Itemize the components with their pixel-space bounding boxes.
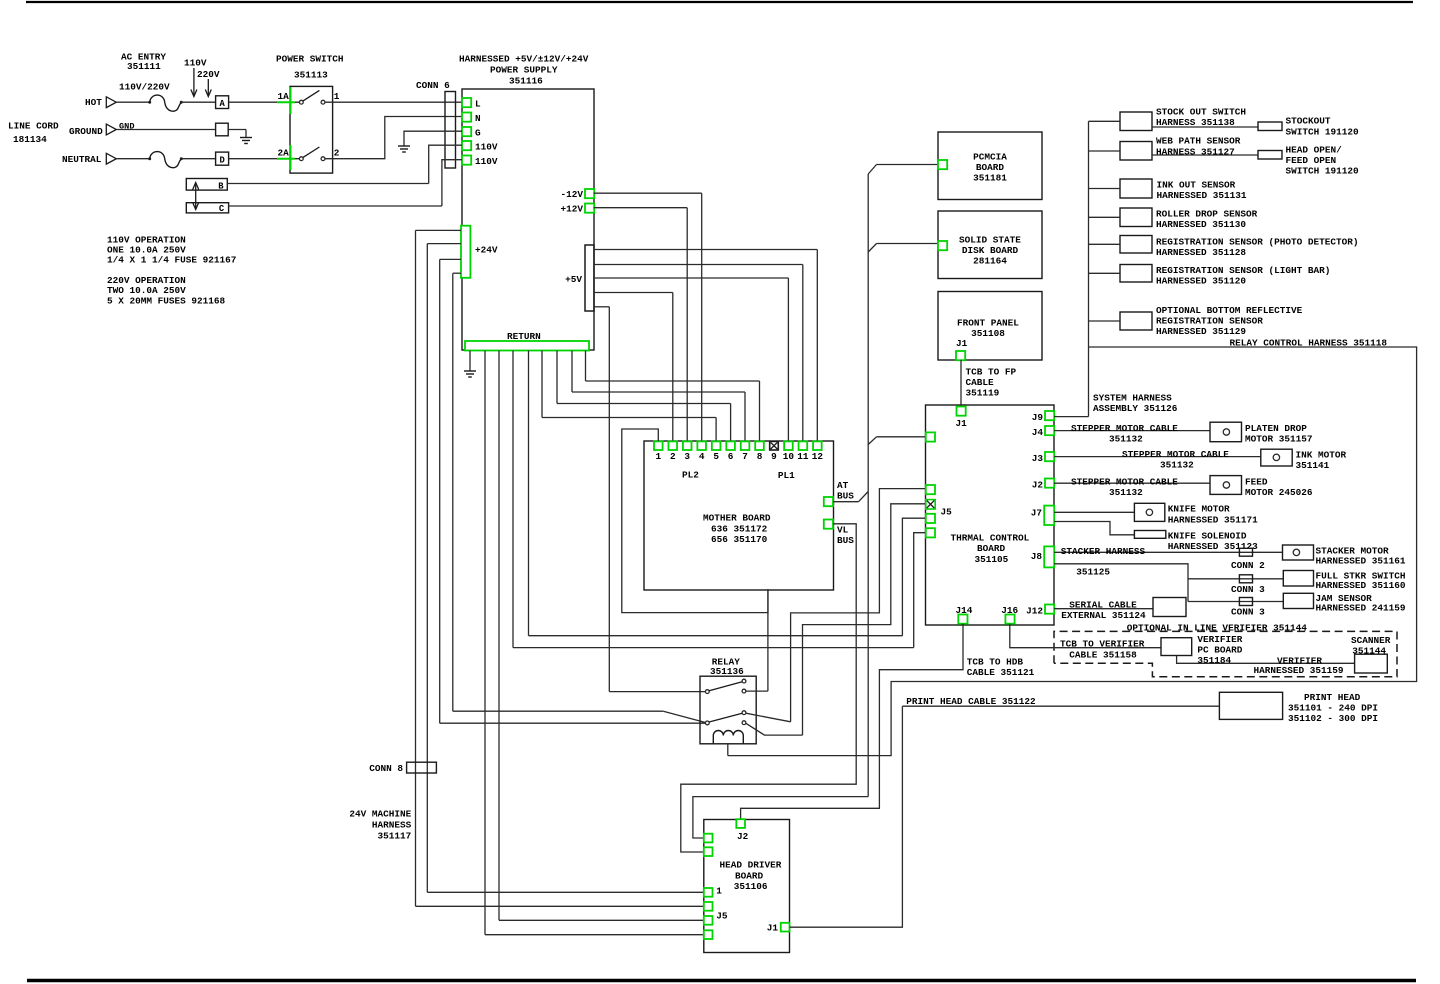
svg-text:PL1: PL1	[778, 470, 795, 481]
svg-text:351132: 351132	[1109, 487, 1143, 498]
svg-text:10: 10	[783, 451, 795, 462]
svg-text:OPTIONAL IN LINE VERIFIER 3511: OPTIONAL IN LINE VERIFIER 351144	[1127, 623, 1307, 634]
svg-text:AT: AT	[837, 480, 849, 491]
svg-text:3: 3	[684, 451, 690, 462]
svg-text:HARNESSED +5V/±12V/+24V: HARNESSED +5V/±12V/+24V	[459, 54, 589, 65]
svg-text:351117: 351117	[378, 831, 412, 842]
svg-text:REGISTRATION SENSOR: REGISTRATION SENSOR	[1156, 315, 1263, 326]
svg-text:351181: 351181	[973, 172, 1007, 183]
svg-text:LINE CORD: LINE CORD	[8, 121, 59, 132]
svg-text:VERIFIER: VERIFIER	[1197, 634, 1242, 645]
svg-text:HEAD OPEN/: HEAD OPEN/	[1286, 144, 1343, 155]
svg-text:TCB TO HDB: TCB TO HDB	[967, 656, 1024, 667]
svg-text:11: 11	[797, 451, 809, 462]
svg-text:J7: J7	[1031, 507, 1042, 518]
svg-text:J5: J5	[716, 910, 728, 921]
svg-text:HARNESS 351127: HARNESS 351127	[1156, 146, 1235, 157]
svg-text:J4: J4	[1032, 427, 1044, 438]
svg-text:SWITCH 191120: SWITCH 191120	[1286, 166, 1360, 177]
svg-text:STACKER HARNESS: STACKER HARNESS	[1061, 546, 1146, 557]
svg-text:J9: J9	[1032, 412, 1044, 423]
svg-text:HARNESSED 351161: HARNESSED 351161	[1316, 556, 1406, 567]
svg-text:1/4 X 1 1/4 FUSE 921167: 1/4 X 1 1/4 FUSE 921167	[107, 255, 236, 266]
svg-text:351184: 351184	[1197, 655, 1231, 666]
svg-text:HARNESSED 351120: HARNESSED 351120	[1156, 275, 1246, 286]
svg-text:+12V: +12V	[560, 203, 583, 214]
svg-text:J8: J8	[1031, 551, 1043, 562]
svg-text:STEPPER MOTOR CABLE: STEPPER MOTOR CABLE	[1071, 423, 1178, 434]
svg-text:351119: 351119	[966, 388, 1000, 399]
svg-text:181134: 181134	[13, 134, 47, 145]
svg-text:24V MACHINE: 24V MACHINE	[349, 808, 411, 819]
svg-text:CONN 3: CONN 3	[1231, 584, 1265, 595]
svg-text:HARNESSED 351129: HARNESSED 351129	[1156, 326, 1246, 337]
svg-text:J2: J2	[1032, 480, 1044, 491]
svg-text:L: L	[475, 98, 481, 109]
svg-text:9: 9	[771, 451, 777, 462]
svg-text:8: 8	[757, 451, 763, 462]
svg-text:A: A	[219, 99, 225, 109]
svg-text:2: 2	[670, 451, 676, 462]
svg-text:110V: 110V	[475, 156, 498, 167]
svg-text:281164: 281164	[973, 255, 1007, 266]
svg-text:351113: 351113	[294, 70, 328, 81]
svg-text:+24V: +24V	[475, 245, 498, 256]
svg-text:SCANNER: SCANNER	[1351, 635, 1391, 646]
svg-text:351132: 351132	[1160, 459, 1194, 470]
svg-text:BOARD: BOARD	[977, 543, 1006, 554]
svg-text:BUS: BUS	[837, 535, 854, 546]
svg-text:BOARD: BOARD	[735, 871, 764, 882]
svg-text:REGISTRATION SENSOR (PHOTO DET: REGISTRATION SENSOR (PHOTO DETECTOR)	[1156, 236, 1359, 247]
svg-text:CONN 2: CONN 2	[1231, 560, 1265, 571]
svg-text:MOTOR 245026: MOTOR 245026	[1245, 487, 1313, 498]
svg-text:CABLE 351158: CABLE 351158	[1069, 649, 1137, 660]
svg-text:RELAY CONTROL HARNESS 351118: RELAY CONTROL HARNESS 351118	[1229, 338, 1387, 349]
svg-text:INK OUT SENSOR: INK OUT SENSOR	[1157, 179, 1236, 190]
svg-text:351108: 351108	[971, 328, 1005, 339]
svg-text:CONN 3: CONN 3	[1231, 607, 1265, 618]
svg-text:STOCKOUT: STOCKOUT	[1286, 115, 1331, 126]
svg-text:1: 1	[716, 886, 722, 897]
svg-text:MOTHER BOARD: MOTHER BOARD	[703, 513, 771, 524]
svg-text:CABLE 351121: CABLE 351121	[967, 667, 1035, 678]
svg-text:FRONT PANEL: FRONT PANEL	[957, 317, 1019, 328]
svg-text:REGISTRATION SENSOR (LIGHT BAR: REGISTRATION SENSOR (LIGHT BAR)	[1156, 265, 1330, 276]
svg-text:G: G	[475, 127, 481, 138]
svg-text:KNIFE MOTOR: KNIFE MOTOR	[1168, 504, 1230, 515]
svg-text:6: 6	[728, 451, 734, 462]
svg-text:DISK BOARD: DISK BOARD	[962, 245, 1019, 256]
svg-text:SOLID STATE: SOLID STATE	[959, 234, 1021, 245]
svg-text:INK MOTOR: INK MOTOR	[1296, 449, 1347, 460]
svg-text:HARNESS: HARNESS	[372, 820, 412, 831]
svg-text:HARNESSED 351160: HARNESSED 351160	[1316, 580, 1406, 591]
svg-text:J1: J1	[767, 922, 779, 933]
svg-text:POWER SUPPLY: POWER SUPPLY	[490, 65, 558, 76]
svg-text:351116: 351116	[509, 76, 543, 87]
svg-text:1: 1	[655, 451, 661, 462]
svg-text:HARNESS 351138: HARNESS 351138	[1156, 117, 1235, 128]
svg-text:GROUND: GROUND	[69, 126, 103, 137]
svg-text:220V: 220V	[197, 69, 220, 80]
svg-text:110V/220V: 110V/220V	[119, 82, 170, 93]
svg-text:351102 - 300 DPI: 351102 - 300 DPI	[1288, 713, 1378, 724]
svg-text:NEUTRAL: NEUTRAL	[62, 154, 102, 165]
svg-text:KNIFE SOLENOID: KNIFE SOLENOID	[1168, 530, 1247, 541]
svg-text:CONN 6: CONN 6	[416, 80, 450, 91]
svg-text:BOARD: BOARD	[976, 162, 1005, 173]
svg-text:HARNESSED 241159: HARNESSED 241159	[1316, 603, 1406, 614]
svg-text:EXTERNAL 351124: EXTERNAL 351124	[1061, 610, 1146, 621]
svg-text:5 X 20MM FUSES 921168: 5 X 20MM FUSES 921168	[107, 296, 226, 307]
svg-text:N: N	[475, 113, 481, 124]
svg-text:+5V: +5V	[565, 274, 582, 285]
svg-text:RETURN: RETURN	[507, 331, 541, 342]
svg-text:MOTOR 351157: MOTOR 351157	[1245, 434, 1313, 445]
svg-text:SYSTEM HARNESS: SYSTEM HARNESS	[1093, 392, 1172, 403]
svg-text:OPTIONAL BOTTOM REFLECTIVE: OPTIONAL BOTTOM REFLECTIVE	[1156, 305, 1303, 316]
svg-text:HEAD DRIVER: HEAD DRIVER	[720, 859, 782, 870]
svg-text:C: C	[219, 204, 225, 214]
svg-text:SWITCH 191120: SWITCH 191120	[1286, 126, 1360, 137]
svg-text:STEPPER MOTOR CABLE: STEPPER MOTOR CABLE	[1071, 477, 1178, 488]
svg-text:1A: 1A	[278, 91, 290, 102]
svg-text:FEED OPEN: FEED OPEN	[1286, 155, 1337, 166]
svg-text:PLATEN DROP: PLATEN DROP	[1245, 423, 1307, 434]
svg-text:-12V: -12V	[560, 189, 583, 200]
svg-text:110V: 110V	[475, 141, 498, 152]
svg-text:CABLE: CABLE	[966, 377, 995, 388]
svg-text:POWER SWITCH: POWER SWITCH	[276, 54, 344, 65]
svg-text:CONN 8: CONN 8	[369, 763, 403, 774]
svg-text:J2: J2	[737, 831, 749, 842]
svg-text:2A: 2A	[278, 148, 290, 159]
svg-text:J1: J1	[956, 418, 968, 429]
svg-text:FEED: FEED	[1245, 477, 1268, 488]
svg-text:J5: J5	[941, 507, 953, 518]
svg-text:351111: 351111	[127, 61, 161, 72]
svg-text:BUS: BUS	[837, 491, 854, 502]
svg-text:HOT: HOT	[85, 97, 102, 108]
svg-text:ASSEMBLY 351126: ASSEMBLY 351126	[1093, 403, 1178, 414]
svg-text:STOCK OUT SWITCH: STOCK OUT SWITCH	[1156, 106, 1246, 117]
svg-text:HARNESSED 351171: HARNESSED 351171	[1168, 514, 1258, 525]
svg-text:351106: 351106	[734, 881, 768, 892]
svg-text:J3: J3	[1032, 453, 1044, 464]
svg-text:ROLLER DROP SENSOR: ROLLER DROP SENSOR	[1156, 208, 1258, 219]
svg-text:PCMCIA: PCMCIA	[973, 151, 1007, 162]
svg-text:656 351170: 656 351170	[711, 534, 768, 545]
svg-text:351144: 351144	[1352, 645, 1386, 656]
svg-text:D: D	[219, 155, 224, 165]
svg-text:351136: 351136	[710, 666, 744, 677]
svg-text:4: 4	[699, 451, 705, 462]
svg-text:HARNESSED 351130: HARNESSED 351130	[1156, 219, 1246, 230]
svg-text:J12: J12	[1026, 605, 1043, 616]
svg-text:VL: VL	[837, 524, 849, 535]
svg-text:2: 2	[334, 148, 340, 159]
svg-text:351125: 351125	[1076, 567, 1110, 578]
svg-text:THRMAL CONTROL: THRMAL CONTROL	[951, 533, 1030, 544]
svg-text:HARNESSED 351131: HARNESSED 351131	[1157, 190, 1247, 201]
svg-text:B: B	[218, 181, 224, 191]
svg-text:351105: 351105	[975, 554, 1009, 565]
svg-text:5: 5	[713, 451, 719, 462]
svg-text:TCB TO FP: TCB TO FP	[966, 366, 1017, 377]
svg-text:PL2: PL2	[682, 469, 699, 480]
svg-text:PRINT HEAD: PRINT HEAD	[1304, 692, 1361, 703]
svg-text:12: 12	[812, 451, 824, 462]
svg-text:TWO 10.0A 250V: TWO 10.0A 250V	[107, 285, 186, 296]
svg-text:PC BOARD: PC BOARD	[1197, 644, 1242, 655]
svg-text:1: 1	[334, 91, 340, 102]
svg-text:HARNESSED 351128: HARNESSED 351128	[1156, 247, 1246, 258]
svg-text:SERIAL CABLE: SERIAL CABLE	[1069, 599, 1137, 610]
svg-text:HARNESSED 351123: HARNESSED 351123	[1168, 541, 1258, 552]
svg-text:PRINT HEAD CABLE 351122: PRINT HEAD CABLE 351122	[906, 696, 1036, 707]
svg-text:J1: J1	[956, 338, 968, 349]
svg-text:WEB PATH SENSOR: WEB PATH SENSOR	[1156, 135, 1241, 146]
svg-text:HARNESSED 351159: HARNESSED 351159	[1254, 665, 1344, 676]
svg-text:351101 - 240 DPI: 351101 - 240 DPI	[1288, 703, 1378, 714]
svg-text:351132: 351132	[1109, 434, 1143, 445]
svg-text:7: 7	[742, 451, 748, 462]
svg-text:351141: 351141	[1296, 460, 1330, 471]
svg-text:110V: 110V	[184, 58, 207, 69]
svg-text:636 351172: 636 351172	[711, 523, 768, 534]
